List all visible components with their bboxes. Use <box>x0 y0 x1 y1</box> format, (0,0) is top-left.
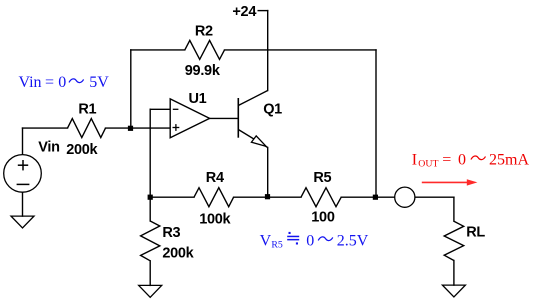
resistor RL (vertical) <box>444 221 464 260</box>
svg-text:0: 0 <box>58 74 66 91</box>
svg-text:+24: +24 <box>232 4 256 20</box>
wire bottom row R5 to node D <box>341 196 395 198</box>
wire Vin source top <box>22 128 24 155</box>
approx-equal symbol (blue) <box>287 232 299 245</box>
svg-text:R5: R5 <box>313 170 331 186</box>
wire R3 top stub <box>149 197 151 221</box>
tilde (blue, Vin annotation) <box>69 79 84 83</box>
wire feedback vertical to node B <box>149 109 151 197</box>
wire R3 bottom stub <box>149 261 151 286</box>
red current arrow <box>422 179 478 185</box>
wire RL top drop <box>453 197 455 221</box>
wire op-amp output to Q1 base <box>210 117 239 119</box>
svg-text:R3: R3 <box>162 225 180 241</box>
tilde (blue, VR5 annotation) <box>318 237 333 241</box>
svg-text:Vin: Vin <box>38 139 59 155</box>
svg-text:25mA: 25mA <box>489 152 529 169</box>
ground (RL) <box>442 285 465 297</box>
tilde (red, IOUT annotation) <box>471 156 486 160</box>
svg-text:100k: 100k <box>199 212 231 228</box>
svg-text:I: I <box>412 152 417 169</box>
annotation VR5 = 0 ~ 2.5V (blue) <box>260 232 369 250</box>
svg-text:=: = <box>45 74 54 91</box>
current probe circle <box>395 187 415 207</box>
junction node C dot <box>265 194 270 199</box>
resistor R4 <box>194 188 234 207</box>
svg-text:2.5V: 2.5V <box>337 232 369 249</box>
svg-text:Q1: Q1 <box>263 101 282 117</box>
wire R2 row left <box>131 49 185 51</box>
svg-text:R1: R1 <box>78 102 96 118</box>
svg-text:100: 100 <box>311 209 335 225</box>
voltage source minus sign <box>17 183 30 185</box>
voltage source plus sign <box>18 160 28 170</box>
wire Vin source bottom <box>22 192 24 216</box>
svg-text:Vin: Vin <box>19 74 42 91</box>
svg-text:R4: R4 <box>206 170 224 186</box>
annotation IOUT = 0 ~ 25mA (red) <box>412 152 530 170</box>
op-amp inverting input mark <box>173 108 179 110</box>
op-amp U1 triangle <box>170 99 209 138</box>
wire RL bottom stub <box>453 261 455 286</box>
svg-text:0: 0 <box>458 152 466 169</box>
wire +24 rail down to collector <box>267 11 269 91</box>
resistor R5 <box>301 188 341 207</box>
svg-text:R2: R2 <box>195 23 213 39</box>
wire R2 row right <box>225 49 377 51</box>
resistor R2 <box>185 40 225 59</box>
wire output rail right vertical <box>375 50 377 197</box>
ground (R3) <box>139 285 162 297</box>
wire main row R1 to op-amp + input <box>106 127 171 129</box>
annotation Vin = 0 ~ 5V (blue) <box>19 74 110 91</box>
wire node A vertical (R1/R2 junction riser) <box>130 50 132 128</box>
transistor Q1 collector lead <box>238 91 267 106</box>
transistor Q1 emitter arrow <box>251 136 266 147</box>
svg-text:5V: 5V <box>89 74 109 91</box>
wire op-amp inverting input stub <box>150 108 170 110</box>
wire Q1 emitter vertical to node C <box>267 148 269 198</box>
svg-text:V: V <box>260 232 272 249</box>
junction node D dot <box>373 195 378 200</box>
svg-text:U1: U1 <box>189 91 207 107</box>
wire +24 tick <box>258 10 268 12</box>
svg-text:OUT: OUT <box>418 158 438 169</box>
resistor R1 <box>68 119 106 138</box>
svg-text:R5: R5 <box>271 239 283 250</box>
junction node A dot <box>128 126 133 131</box>
svg-text:0: 0 <box>306 232 314 249</box>
wire bottom row node B to R4 <box>150 196 194 198</box>
wire bottom row R4 to node C <box>234 196 301 198</box>
svg-text:200k: 200k <box>162 246 194 262</box>
junction node B dot <box>148 195 153 200</box>
ground (Vin source) <box>11 216 34 228</box>
transistor Q1 emitter lead <box>238 130 267 148</box>
wire main row from source to R1 <box>23 127 68 129</box>
svg-text:RL: RL <box>466 225 485 241</box>
svg-text:=: = <box>442 152 451 169</box>
transistor Q1 base bar <box>237 98 239 138</box>
svg-text:200k: 200k <box>66 142 98 158</box>
wire node D to probe and to RL drop <box>415 196 454 198</box>
svg-text:99.9k: 99.9k <box>185 63 221 79</box>
resistor R3 (vertical) <box>141 221 160 261</box>
op-amp non-inverting input mark <box>173 124 180 131</box>
voltage source Vin circle <box>4 155 42 193</box>
